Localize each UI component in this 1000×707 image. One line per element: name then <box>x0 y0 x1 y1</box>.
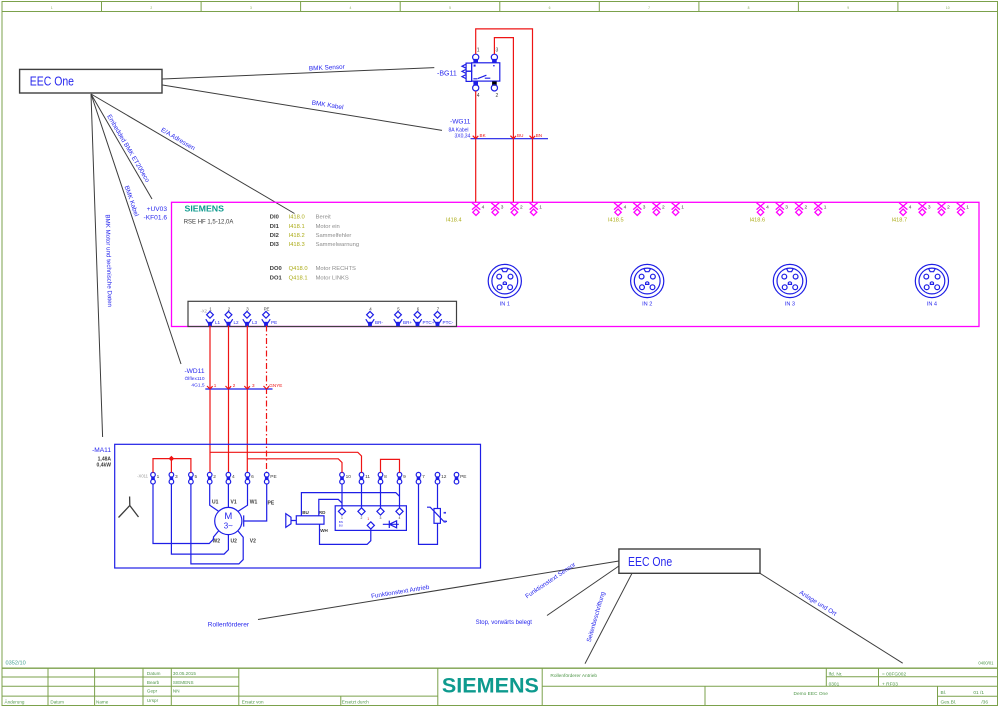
svg-text:RD: RD <box>319 510 326 515</box>
svg-text:RSE HF 1,5-12,0A: RSE HF 1,5-12,0A <box>184 219 234 225</box>
svg-text:4: 4 <box>624 205 627 211</box>
svg-text:3: 3 <box>175 474 178 480</box>
svg-text:PE: PE <box>268 501 275 507</box>
motor terminal 10 <box>340 472 352 484</box>
pin 3 of -BG11 <box>491 47 498 63</box>
svg-text:6: 6 <box>251 474 254 480</box>
motor terminal 12 <box>435 472 447 484</box>
svg-text:DO1: DO1 <box>270 275 283 281</box>
svg-text:IN 1: IN 1 <box>500 302 510 308</box>
cable crossing markers WD11 <box>207 386 213 389</box>
svg-text:EEC One: EEC One <box>628 554 672 569</box>
socket pin IN 3 contact 2 <box>795 203 808 216</box>
svg-text:M: M <box>224 511 232 522</box>
svg-text:3: 3 <box>643 205 646 211</box>
DI/DO address table <box>270 215 359 282</box>
motor terminal 3 <box>169 472 178 484</box>
svg-text:I418.6: I418.6 <box>750 217 766 223</box>
svg-text:Bl.: Bl. <box>941 690 947 696</box>
star connection symbol <box>119 497 139 518</box>
svg-text:30.05.2015: 30.05.2015 <box>173 671 196 676</box>
svg-text:4: 4 <box>766 205 769 211</box>
svg-text:PTC-: PTC- <box>443 320 454 325</box>
diode <box>383 521 399 528</box>
title block texts left <box>5 671 370 705</box>
svg-text:I418.0: I418.0 <box>289 215 305 221</box>
svg-text:PTC+: PTC+ <box>423 320 435 325</box>
rectifier bottom terminal <box>367 522 374 529</box>
wire W2 loop <box>153 484 219 544</box>
svg-text:8A Kabel: 8A Kabel <box>449 128 469 134</box>
EEC One infobox bottom <box>619 549 760 573</box>
svg-text:BK: BK <box>480 133 487 138</box>
socket pin IN 3 contact 3 <box>776 203 789 216</box>
svg-text:2: 2 <box>150 6 152 10</box>
cable -WD11 line <box>205 388 272 390</box>
svg-text:Datum: Datum <box>50 699 64 704</box>
svg-text:3: 3 <box>250 6 252 10</box>
terminal strip box -X2 <box>188 301 457 326</box>
winding labels <box>212 500 275 545</box>
svg-text:4G1,5: 4G1,5 <box>191 383 204 389</box>
svg-text:01 /1: 01 /1 <box>973 690 984 696</box>
svg-text:NN: NN <box>173 689 180 694</box>
svg-text:IN 2: IN 2 <box>642 302 652 308</box>
svg-text:4: 4 <box>232 474 235 480</box>
svg-text:3X0,34: 3X0,34 <box>455 134 471 140</box>
svg-text:BN: BN <box>536 133 542 138</box>
motor terminal 9 <box>397 472 406 484</box>
svg-text:3: 3 <box>252 383 255 388</box>
title block grid <box>2 668 998 705</box>
svg-text:8: 8 <box>384 474 387 480</box>
svg-text:Bereit: Bereit <box>316 215 332 221</box>
svg-text:+ RF03: + RF03 <box>882 682 898 688</box>
leader line to BMK Kabel (motor cable) <box>91 94 181 364</box>
wire L2 feed <box>228 326 230 473</box>
svg-text:4: 4 <box>349 6 351 10</box>
svg-text:I418.3: I418.3 <box>289 242 305 248</box>
svg-text:2: 2 <box>947 205 950 211</box>
terminal -X2:4 (BR-) <box>366 307 384 327</box>
terminal -X2:3 (L3) <box>243 307 258 327</box>
wire number tags 1 2 3 GNYE <box>214 383 283 388</box>
motor terminal PE <box>264 472 276 484</box>
svg-text:U1: U1 <box>212 500 219 506</box>
svg-text:9: 9 <box>847 6 849 10</box>
svg-text:0400/01: 0400/01 <box>978 660 994 665</box>
pin 1 of -BG11 <box>473 47 480 63</box>
svg-text:Ölflex110: Ölflex110 <box>185 375 205 382</box>
svg-text:1: 1 <box>51 6 53 10</box>
svg-text:5: 5 <box>449 6 451 10</box>
motor M 3~ circle <box>215 507 242 534</box>
svg-text:V2: V2 <box>250 538 256 544</box>
svg-text:-X011: -X011 <box>137 474 149 479</box>
sensor B1 proximity switch body <box>462 63 500 82</box>
wire U2 loop <box>171 484 228 554</box>
svg-text:L2: L2 <box>234 320 240 325</box>
svg-text:DI0: DI0 <box>270 215 279 221</box>
svg-text:+UV03: +UV03 <box>147 206 168 213</box>
svg-text:-WD11: -WD11 <box>184 368 204 375</box>
svg-text:L1: L1 <box>215 320 221 325</box>
svg-text:0301: 0301 <box>829 682 840 688</box>
socket pin IN 3 contact 1 <box>814 203 827 216</box>
terminal -X2:5 (BR+) <box>394 307 413 327</box>
svg-text:Motor RECHTS: Motor RECHTS <box>316 266 356 272</box>
svg-text:1: 1 <box>681 205 684 211</box>
svg-text:EEC One: EEC One <box>30 74 74 89</box>
wire U1 <box>210 484 219 511</box>
svg-text:Bearb: Bearb <box>147 680 160 685</box>
svg-text:Name: Name <box>96 699 109 704</box>
svg-text:I418.4: I418.4 <box>446 217 462 223</box>
pin 2 of -BG11 (unconnected) <box>491 81 498 98</box>
socket pin IN 2 contact 3 <box>633 203 646 216</box>
brake magnet symbol <box>286 514 297 528</box>
EEC One infobox top-left <box>20 69 162 93</box>
svg-text:2: 2 <box>520 205 523 211</box>
wire RD <box>319 499 342 515</box>
svg-text:Urspr: Urspr <box>147 698 159 703</box>
svg-text:5: 5 <box>195 474 198 480</box>
svg-text:8: 8 <box>748 6 750 10</box>
svg-text:0352/10: 0352/10 <box>6 661 26 667</box>
svg-text:Gepr: Gepr <box>147 689 158 694</box>
svg-text:Änderung: Änderung <box>5 698 25 704</box>
svg-text:PE: PE <box>271 320 277 325</box>
cable -WG11 line <box>471 138 549 140</box>
svg-text:SIEMENS: SIEMENS <box>442 674 539 698</box>
svg-text:7: 7 <box>422 474 425 480</box>
svg-text:3: 3 <box>928 205 931 211</box>
svg-text:PE: PE <box>264 307 270 312</box>
svg-text:1: 1 <box>367 517 369 521</box>
svg-text:4: 4 <box>482 205 485 211</box>
svg-text:4: 4 <box>477 93 480 99</box>
svg-text:2: 2 <box>213 474 216 480</box>
svg-text:Demo EEC One: Demo EEC One <box>794 691 829 697</box>
svg-text:10: 10 <box>346 474 352 480</box>
svg-text:SIEMENS: SIEMENS <box>185 205 225 214</box>
motor box outline <box>115 444 481 568</box>
svg-text:3: 3 <box>501 205 504 211</box>
svg-text:BU: BU <box>517 133 523 138</box>
svg-text:-X2: -X2 <box>200 309 207 314</box>
motor terminal PE <box>454 472 466 484</box>
wire colour tags BK BU BN <box>480 133 543 138</box>
svg-text:0,4kW: 0,4kW <box>97 463 112 469</box>
socket pin IN 1 contact 1 <box>530 203 543 216</box>
M12 connector IN 2 <box>631 264 664 307</box>
svg-text:-WG11: -WG11 <box>450 118 471 125</box>
socket pin IN 4 contact 3 <box>918 203 931 216</box>
top ruler row <box>2 2 998 12</box>
terminal -X2:1 (L1) <box>206 307 221 327</box>
terminal -X2:7 (PTC-) <box>433 307 453 327</box>
svg-text:DI2: DI2 <box>270 233 279 239</box>
svg-text:IN 3: IN 3 <box>785 302 795 308</box>
red bridge 1-3-5 <box>153 459 191 473</box>
svg-text:PE: PE <box>270 474 276 480</box>
leader line Funktionstext Antrieb <box>258 561 619 620</box>
leader line to Embedded BMK ET200eco <box>91 94 152 199</box>
svg-text:Motor ein: Motor ein <box>316 224 340 230</box>
brake coil <box>296 516 324 524</box>
svg-text:Sammelfehler: Sammelfehler <box>316 233 352 239</box>
svg-text:3~: 3~ <box>224 522 233 531</box>
rectifier terminal 3 <box>377 508 384 515</box>
svg-text:Ersatz von: Ersatz von <box>242 699 264 704</box>
svg-text:I418.1: I418.1 <box>289 224 305 230</box>
svg-text:Q418.1: Q418.1 <box>289 275 308 281</box>
svg-text:1: 1 <box>539 205 542 211</box>
rectifier terminal 1 <box>338 508 345 515</box>
PTC thermistor <box>427 507 447 523</box>
svg-text:BR-: BR- <box>375 320 383 325</box>
svg-text:Sammelwarnung: Sammelwarnung <box>316 242 360 248</box>
socket pin IN 4 contact 2 <box>938 203 951 216</box>
svg-text:12: 12 <box>441 474 447 480</box>
svg-text:2: 2 <box>233 383 236 388</box>
socket pin IN 4 contact 4 <box>899 203 912 216</box>
socket pin IN 3 contact 4 <box>757 203 770 216</box>
pin 4 of -BG11 <box>473 81 480 98</box>
svg-text:-MA11: -MA11 <box>92 447 111 454</box>
junction on bridge <box>169 456 175 462</box>
wire sensor pin3 to IN1 pin3 <box>494 38 513 203</box>
svg-text:GNYE: GNYE <box>269 383 282 388</box>
socket pin IN 2 contact 1 <box>672 203 685 216</box>
svg-text:DI1: DI1 <box>270 224 280 230</box>
svg-text:1: 1 <box>966 205 969 211</box>
svg-text:11: 11 <box>365 474 370 480</box>
svg-text:9: 9 <box>403 474 406 480</box>
svg-text:Ges.Bl.: Ges.Bl. <box>941 700 957 706</box>
tiny wire tags <box>339 520 343 527</box>
cable crossing markers WG11 <box>473 136 479 139</box>
svg-text:Rollenförderer Antrieb: Rollenförderer Antrieb <box>550 673 597 679</box>
socket pin IN 2 contact 2 <box>652 203 665 216</box>
wire V1 <box>227 484 229 507</box>
rectifier terminal 2 <box>358 508 365 515</box>
M12 connector IN 3 <box>773 264 806 307</box>
svg-text:DO0: DO0 <box>270 266 282 272</box>
socket pin IN 4 contact 1 <box>957 203 970 216</box>
svg-text:-BG11: -BG11 <box>437 71 457 78</box>
svg-text:-KF01.6: -KF01.6 <box>144 214 168 221</box>
svg-text:L3: L3 <box>252 320 258 325</box>
branch wire to terminal 10 <box>247 459 342 473</box>
wire PE feed (dash-dot) <box>266 326 268 473</box>
svg-text:IN 4: IN 4 <box>927 302 937 308</box>
motor terminal 6 <box>245 472 254 484</box>
svg-text:V1: V1 <box>231 500 237 506</box>
brake rectifier box <box>335 506 406 531</box>
wire L3 feed <box>246 326 248 473</box>
motor terminal 5 <box>189 472 198 484</box>
svg-text:Stop, vorwärts belegt: Stop, vorwärts belegt <box>476 620 533 626</box>
svg-text:1: 1 <box>824 205 827 211</box>
svg-text:BU: BU <box>339 523 343 527</box>
svg-text:2: 2 <box>662 205 665 211</box>
socket pin IN 1 contact 3 <box>491 203 504 216</box>
svg-text:I418.5: I418.5 <box>608 217 624 223</box>
terminal -X2:2 (L2) <box>224 307 239 327</box>
rectifier wires from terminals 10 11 8 9 <box>342 484 400 508</box>
cable -WD11 labels <box>184 368 204 388</box>
svg-text:Q418.0: Q418.0 <box>289 266 308 272</box>
svg-text:U2: U2 <box>231 538 238 544</box>
rectifier terminal 4 <box>396 508 403 515</box>
svg-text:3: 3 <box>785 205 788 211</box>
leader line Funktionstext Sensor <box>547 566 619 616</box>
svg-text:2: 2 <box>805 205 808 211</box>
socket pin IN 1 contact 4 <box>472 203 485 216</box>
socket pin IN 2 contact 4 <box>614 203 627 216</box>
M12 connector IN 1 <box>488 264 521 307</box>
wire terminal 7 to thermistor <box>419 484 438 544</box>
leader line to BMK Sensor <box>163 68 435 79</box>
svg-text:BR+: BR+ <box>403 320 412 325</box>
svg-text:DI3: DI3 <box>270 242 280 248</box>
leader line to BMK Kabel (sensor cable) <box>163 85 443 130</box>
svg-text:7: 7 <box>648 6 650 10</box>
terminal -X2:PE (PE) <box>262 307 277 327</box>
svg-text:BU: BU <box>302 510 309 515</box>
M12 connector IN 4 <box>915 264 948 307</box>
svg-text:SIEMENS: SIEMENS <box>173 680 194 685</box>
svg-text:Rollenförderer: Rollenförderer <box>208 622 250 629</box>
wire W1 <box>238 484 248 511</box>
svg-text:PE: PE <box>460 474 466 480</box>
svg-text:6: 6 <box>549 6 551 10</box>
svg-text:1: 1 <box>214 383 217 388</box>
wire sensor pin4 to IN1 pin4 <box>475 91 477 202</box>
leader line to E/A Adressen <box>91 94 295 214</box>
red bridge 8-9 <box>381 459 400 472</box>
motor terminal 4 <box>226 472 235 484</box>
svg-text:1: 1 <box>157 474 160 480</box>
svg-text:10: 10 <box>946 6 950 10</box>
motor terminal 7 <box>416 472 425 484</box>
socket pin IN 1 contact 2 <box>510 203 523 216</box>
wire WH <box>320 524 371 544</box>
motor terminal 1 <box>151 472 160 484</box>
svg-text:3: 3 <box>496 47 499 53</box>
leader line Seitenbeschriftung <box>585 573 632 663</box>
svg-text:I418.7: I418.7 <box>892 217 908 223</box>
motor terminal 11 <box>359 472 370 484</box>
wire PE to motor frame <box>244 484 267 527</box>
svg-text:lfd. Nr.: lfd. Nr. <box>829 672 843 678</box>
title block texts right <box>550 672 988 706</box>
leader line to BMK Motor <box>91 94 103 437</box>
svg-text:W1: W1 <box>250 500 258 506</box>
cable -WG11 labels <box>449 118 471 139</box>
wire sensor pin1 to IN1 pin1 <box>476 29 533 203</box>
svg-text:Datum: Datum <box>147 671 161 676</box>
svg-text:I418.2: I418.2 <box>289 233 305 239</box>
svg-text:2: 2 <box>361 516 363 520</box>
svg-text:Motor LINKS: Motor LINKS <box>316 275 349 281</box>
svg-text:4: 4 <box>399 516 401 520</box>
svg-text:Ersetzt durch: Ersetzt durch <box>342 699 370 704</box>
branch wire to terminal 11 <box>210 452 362 472</box>
wire V2 loop <box>191 484 243 564</box>
svg-text:3: 3 <box>380 516 382 520</box>
motor terminal 8 <box>378 472 387 484</box>
terminal -X2:6 (PTC+) <box>413 307 434 327</box>
wire L1 feed <box>209 326 211 473</box>
svg-text:WH: WH <box>320 528 328 533</box>
svg-text:1: 1 <box>477 47 480 53</box>
wire terminal 12 to thermistor <box>437 484 439 509</box>
svg-text:= 00FG002: = 00FG002 <box>882 672 906 678</box>
svg-text:2: 2 <box>496 93 499 99</box>
ET200eco motor starter U1 main box <box>172 202 980 326</box>
wire BU <box>301 493 399 516</box>
motor terminal 2 <box>207 472 216 484</box>
svg-text:/36: /36 <box>981 700 988 706</box>
leader line Anlage und Ort <box>760 573 903 663</box>
svg-text:4: 4 <box>909 205 912 211</box>
